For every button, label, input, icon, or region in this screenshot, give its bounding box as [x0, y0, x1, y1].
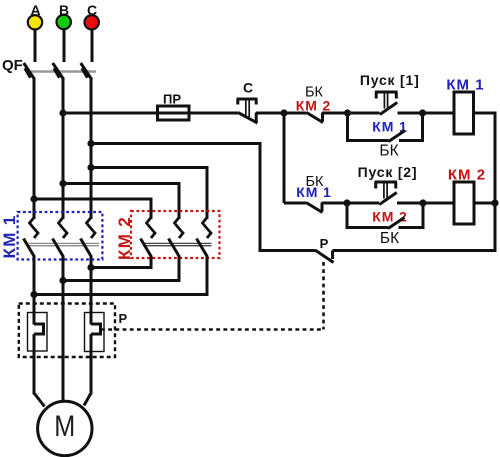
svg-text:М: М [54, 410, 75, 443]
node coil2 left [419, 199, 426, 206]
KM1 mechanical link [29, 243, 99, 245]
heater 2 frame [85, 313, 105, 352]
label B [59, 2, 69, 18]
svg-text:С: С [243, 80, 253, 96]
svg-text:Р: Р [320, 236, 329, 251]
heater 1 frame [28, 313, 48, 352]
KM2 pole 2 [169, 218, 184, 258]
wire control feed [63, 112, 158, 115]
node join pole3 [30, 291, 37, 298]
label P contact [320, 236, 329, 251]
node pusk2 left [343, 199, 350, 206]
wire to coil KM1 [423, 112, 455, 115]
NC contact BK KM1 [284, 203, 347, 213]
label KM1 latch1 [372, 119, 407, 135]
QF breaker poles [24, 63, 92, 80]
node B control tap [59, 109, 66, 116]
wire lamp A to QF [34, 30, 37, 62]
label KM1 box (rotated) [0, 215, 19, 259]
label BK latch2 [380, 230, 399, 247]
svg-text:Пуск [1]: Пуск [1] [360, 72, 420, 88]
wire pusk1 to node [398, 112, 423, 115]
node join pole2 [59, 277, 66, 284]
wire C to KM2 pole3 [91, 168, 207, 220]
label BK latch1 [379, 143, 398, 160]
wire latch1 right drop [421, 113, 424, 142]
KM1 pole 3 [81, 218, 96, 258]
node A to KM2 pole1 [30, 195, 37, 202]
KM1 pole 2 [53, 218, 68, 258]
NO latch contact KM2 [347, 218, 423, 229]
motor M [38, 401, 92, 455]
node C to KM2 pole3 [87, 164, 94, 171]
node join pole1 [87, 264, 94, 271]
label M motor [54, 410, 75, 443]
wire KM1 pole3 out [90, 256, 93, 325]
label C [87, 2, 97, 18]
lamp B (green) [57, 15, 71, 29]
label KM2 latch2 [372, 209, 407, 225]
stop button C (NC) [237, 99, 258, 123]
wire right rail [494, 112, 497, 253]
QF mechanical link bar [27, 70, 96, 72]
wire C button to node [256, 112, 284, 115]
fuse PR [158, 106, 190, 120]
label P relay [118, 311, 127, 326]
KM1 pole 1 [24, 218, 39, 258]
wire KM1 pole2 out [62, 256, 65, 400]
KM2 mechanical link [143, 243, 212, 245]
node C return tap [87, 140, 94, 147]
wire phase A vertical [33, 79, 36, 220]
lamp A (yellow) [28, 15, 42, 29]
wire KM2 pole2 out [63, 256, 179, 281]
start button Pusk2 (NO) [375, 182, 398, 205]
heater 1 element [34, 324, 44, 334]
wire B to KM2 pole2 [63, 184, 179, 220]
label A [30, 2, 40, 18]
thermal relay box [19, 304, 115, 358]
label PR [163, 92, 181, 107]
label Pusk 2 [358, 164, 418, 180]
label KM2 box (rotated) [115, 216, 134, 260]
svg-text:БК: БК [379, 143, 398, 160]
NC contact P [315, 250, 334, 263]
wire rung2 left drop [283, 113, 286, 203]
wire to pusk2 [347, 202, 379, 205]
svg-text:ПР: ПР [163, 92, 181, 107]
wire coil1 to rail [474, 112, 497, 115]
start button Pusk1 (NO) [375, 92, 398, 115]
node B to KM2 pole2 [59, 180, 66, 187]
svg-text:QF: QF [2, 57, 23, 74]
node rung1 left [280, 109, 287, 116]
svg-text:Р: Р [118, 311, 127, 326]
svg-text:КМ 2: КМ 2 [296, 98, 331, 114]
wire motor lead C [84, 334, 91, 406]
coil KM2 [454, 182, 474, 224]
svg-text:КМ 1: КМ 1 [0, 215, 19, 259]
node pusk1 left [344, 109, 351, 116]
svg-text:КМ 2: КМ 2 [372, 209, 407, 225]
dashed link P horizontal [101, 328, 324, 331]
svg-text:БК: БК [380, 230, 399, 247]
heater 2 element [91, 324, 101, 334]
wire lamp B to QF [63, 30, 66, 62]
wire pusk2 to node [397, 202, 423, 205]
svg-text:Пуск [2]: Пуск [2] [358, 164, 418, 180]
wire KM1 pole1 out [33, 256, 36, 325]
wire phase C vertical [90, 79, 93, 220]
wire coil2 to rail [474, 202, 495, 205]
KM2 pole 3 [197, 218, 212, 258]
wire phase B vertical [62, 79, 65, 220]
dashed link P vertical [322, 262, 325, 330]
wire return line right [333, 249, 497, 252]
wire fuse to C button [189, 112, 238, 115]
label KM1 contact2 [296, 184, 331, 200]
KM2 pole 1 [141, 218, 156, 258]
NO latch contact KM1 [348, 131, 423, 142]
label KM1 coil [446, 77, 484, 94]
KM1 contact box [18, 212, 103, 260]
coil KM1 [454, 92, 474, 134]
wire motor lead A [34, 334, 45, 407]
KM2 contact box [131, 211, 220, 258]
lamp C (red) [85, 15, 99, 29]
wire latch1 left drop [346, 113, 349, 142]
wire to coil KM2 [423, 202, 454, 205]
wire KM2 pole3 out [34, 256, 207, 295]
wire return line left [259, 249, 316, 252]
node coil1 left [419, 109, 426, 116]
wire left return rail [259, 142, 262, 252]
label KM2 contact1 [296, 98, 331, 114]
label QF [2, 57, 23, 74]
wire A to KM2 pole1 [34, 199, 151, 219]
wire return tap [91, 142, 260, 145]
label KM2 coil [448, 167, 486, 184]
svg-text:КМ 1: КМ 1 [296, 184, 331, 200]
label BK contact1 [305, 85, 324, 101]
NC contact BK KM2 [284, 113, 348, 123]
wire latch2 right drop [422, 203, 425, 229]
label Pusk 1 [360, 72, 420, 88]
node coil2 rail [491, 199, 498, 206]
label BK contact2 [306, 174, 325, 190]
wire KM2 pole1 out [91, 256, 151, 268]
wire lamp C to QF [91, 30, 94, 62]
label C button [243, 80, 253, 96]
wire latch2 left drop [346, 203, 349, 229]
wire to pusk1 [348, 112, 380, 115]
